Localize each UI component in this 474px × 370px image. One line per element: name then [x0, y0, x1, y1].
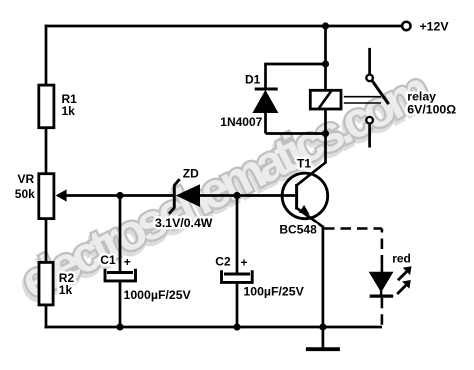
junction C1-rail: [116, 323, 123, 330]
wire D1 top horizontal: [266, 63, 327, 66]
capacitor C2: [222, 270, 253, 282]
svg-text:D1: D1: [245, 72, 261, 86]
wire C1 top branch: [119, 194, 122, 273]
wire D1 anode lead: [264, 63, 267, 89]
junction wiper-C1: [116, 192, 123, 199]
svg-text:+: +: [124, 255, 131, 269]
resistor R2: [39, 262, 53, 305]
label 1000uF/25V: [124, 288, 192, 302]
svg-text:relay: relay: [407, 89, 436, 103]
LED red: [369, 272, 394, 297]
label relay 6V/100ohm: [407, 89, 456, 116]
wire left rail top: [45, 25, 48, 86]
junction wiper-C2: [233, 192, 240, 199]
svg-text:3.1V/0.4W: 3.1V/0.4W: [155, 216, 213, 230]
wire R2 to bottom rail: [45, 305, 48, 328]
svg-text:VR: VR: [18, 172, 35, 186]
svg-text:+: +: [241, 255, 248, 269]
diode D1: [252, 89, 278, 113]
wire VR to R2: [45, 219, 48, 263]
resistor R1: [39, 85, 54, 128]
svg-text:red: red: [392, 252, 411, 266]
wire C2 top branch: [236, 194, 239, 274]
label +12V: [420, 20, 450, 34]
svg-text:50k: 50k: [15, 187, 35, 201]
zener diode ZD: [169, 179, 200, 214]
label R2 1k: [59, 271, 75, 297]
relay coil: [310, 90, 341, 109]
wire relay coil bottom: [324, 109, 327, 135]
label D1: [245, 72, 261, 86]
svg-text:ZD: ZD: [183, 167, 199, 181]
svg-text:+12V: +12V: [420, 20, 450, 34]
wire relay to T1 collector: [324, 132, 327, 164]
label ZD: [183, 167, 199, 181]
wire ZD to T1 base: [199, 194, 298, 197]
wire relay coil top: [324, 26, 327, 90]
svg-text:1k: 1k: [59, 283, 73, 297]
svg-text:100µF/25V: 100µF/25V: [243, 284, 304, 298]
wire C2 bottom branch: [236, 282, 239, 328]
label 3.1V/0.4W: [155, 216, 213, 230]
ground: [306, 327, 340, 349]
svg-text:T1: T1: [297, 156, 311, 170]
relay actuator link: [344, 97, 381, 103]
LED emission arrows: [397, 266, 411, 294]
wire D1 bottom horizontal: [266, 132, 327, 135]
wire dashed LED branch bottom: [381, 298, 384, 329]
wire bottom rail: [45, 326, 382, 329]
svg-text:1N4007: 1N4007: [220, 115, 262, 129]
junction emitter-rail: [319, 323, 326, 330]
label 100uF/25V: [243, 284, 304, 298]
svg-text:1k: 1k: [62, 104, 76, 118]
wire C1 bottom branch: [119, 281, 122, 328]
capacitor C1: [105, 269, 136, 281]
svg-text:BC548: BC548: [279, 223, 317, 237]
transistor T1: [282, 163, 328, 227]
label R1 1k: [62, 92, 78, 118]
relay switch arm: [372, 81, 389, 105]
relay contact terminal bottom: [366, 117, 373, 148]
terminal +12V: [402, 22, 410, 30]
wire dashed LED branch top: [381, 229, 384, 273]
svg-text:6V/100Ω: 6V/100Ω: [407, 103, 456, 117]
wire T1 emitter to ground rail: [322, 226, 325, 329]
label C1 +: [100, 253, 131, 269]
label C2 +: [215, 255, 247, 270]
junction D1 top: [322, 60, 329, 67]
label VR 50k: [15, 172, 35, 201]
wire +12V top rail: [45, 25, 401, 28]
junction C2-rail: [233, 323, 240, 330]
label BC548: [279, 223, 317, 237]
junction rail-relay: [322, 22, 329, 29]
label T1: [297, 156, 311, 170]
junction D1 bottom: [322, 130, 329, 137]
label red: [392, 252, 411, 266]
potentiometer VR: [39, 174, 173, 219]
svg-text:C1: C1: [100, 253, 116, 267]
label 1N4007: [220, 115, 262, 129]
relay contact terminal top: [366, 48, 373, 81]
svg-text:1000µF/25V: 1000µF/25V: [124, 288, 192, 302]
wire D1 cathode lead: [264, 112, 267, 134]
svg-text:C2: C2: [215, 255, 231, 269]
wire R1 to VR: [45, 128, 48, 174]
wire dashed emitter to LED branch: [324, 227, 382, 230]
